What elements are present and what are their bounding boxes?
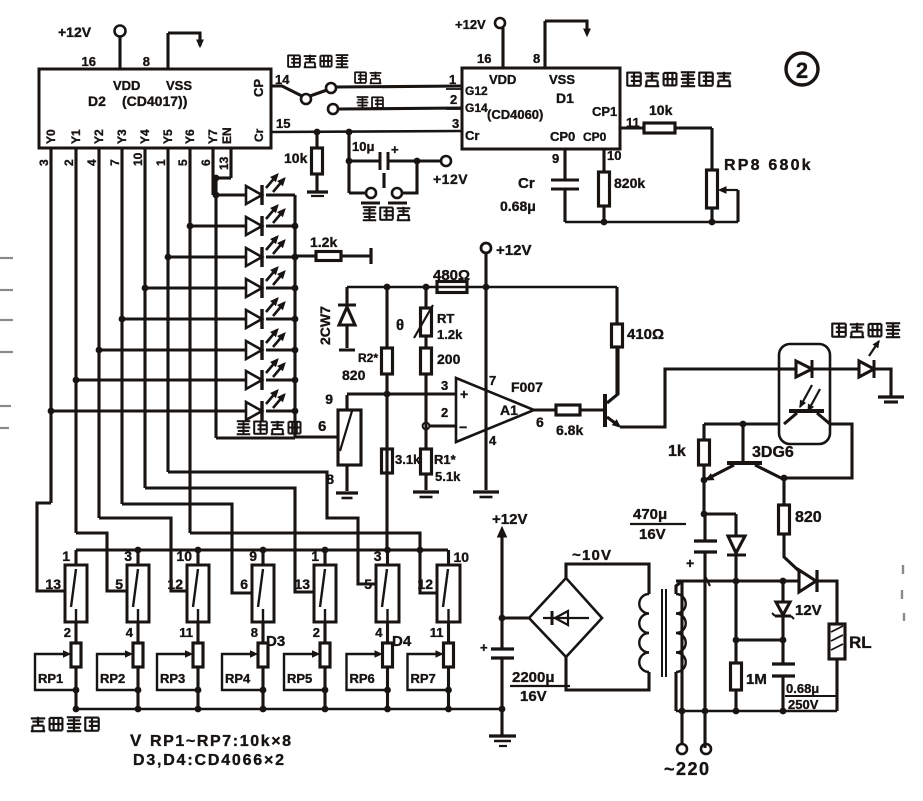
svg-text:D3: D3: [266, 633, 285, 650]
svg-text:EN: EN: [220, 127, 234, 144]
svg-text:RP4: RP4: [225, 671, 251, 686]
svg-text:0.68μ: 0.68μ: [786, 681, 819, 696]
svg-text:10k: 10k: [284, 150, 308, 166]
svg-text:1.2k: 1.2k: [310, 234, 337, 250]
svg-text:3: 3: [441, 378, 448, 393]
svg-text:3.1k: 3.1k: [395, 452, 421, 467]
svg-text:+12V: +12V: [455, 17, 486, 32]
svg-text:2: 2: [450, 92, 457, 107]
svg-text:RP6: RP6: [350, 671, 375, 686]
svg-text:9: 9: [325, 391, 333, 407]
svg-text:15: 15: [276, 116, 290, 131]
svg-text:13: 13: [45, 576, 61, 592]
svg-text:D4: D4: [392, 633, 412, 650]
svg-text:+12V: +12V: [492, 511, 527, 528]
svg-text:12: 12: [417, 576, 433, 592]
svg-text:4: 4: [126, 625, 134, 640]
svg-text:(CD4017)): (CD4017)): [122, 93, 187, 109]
svg-text:10: 10: [454, 549, 470, 565]
svg-text:3: 3: [124, 548, 132, 564]
svg-text:8: 8: [251, 625, 258, 640]
svg-text:5.1k: 5.1k: [435, 469, 461, 484]
svg-text:10: 10: [176, 548, 192, 564]
svg-text:6: 6: [318, 418, 326, 435]
svg-text:1M: 1M: [746, 671, 767, 688]
svg-text:6: 6: [536, 414, 544, 430]
svg-text:+12V: +12V: [433, 171, 468, 187]
svg-text:Y4: Y4: [138, 129, 152, 144]
svg-text:RT: RT: [437, 311, 454, 326]
svg-text:8: 8: [533, 51, 540, 66]
svg-text:4: 4: [85, 159, 99, 166]
svg-text:820: 820: [342, 367, 366, 383]
svg-text:A1: A1: [500, 402, 518, 418]
svg-text:4: 4: [489, 433, 497, 448]
svg-text:6: 6: [240, 576, 248, 592]
svg-text:5: 5: [115, 576, 123, 592]
svg-text:Y3: Y3: [115, 129, 129, 144]
svg-text:+: +: [460, 386, 468, 402]
svg-text:CP1: CP1: [592, 104, 617, 119]
svg-text:2: 2: [796, 58, 808, 83]
svg-text:13: 13: [217, 156, 231, 170]
svg-text:VSS: VSS: [166, 78, 192, 93]
svg-text:1.2k: 1.2k: [437, 327, 463, 342]
svg-text:−: −: [459, 419, 467, 435]
svg-text:2: 2: [313, 625, 320, 640]
svg-text:R1*: R1*: [434, 452, 457, 467]
svg-text:G12: G12: [465, 84, 488, 98]
svg-text:1: 1: [311, 548, 319, 564]
svg-text:VDD: VDD: [113, 78, 140, 93]
svg-text:D1: D1: [556, 90, 574, 106]
svg-text:9: 9: [249, 548, 257, 564]
svg-text:CP: CP: [251, 79, 266, 97]
svg-text:Cr: Cr: [465, 128, 479, 143]
svg-text:2: 2: [64, 625, 71, 640]
svg-text:V: V: [130, 731, 142, 750]
svg-text:480Ω: 480Ω: [433, 267, 470, 284]
svg-text:13: 13: [294, 576, 310, 592]
svg-text:12V: 12V: [795, 602, 822, 619]
svg-text:470μ: 470μ: [633, 506, 667, 523]
svg-text:CP0: CP0: [550, 129, 575, 144]
svg-text:2: 2: [441, 405, 448, 420]
svg-text:~220: ~220: [664, 759, 711, 779]
svg-text:2: 2: [62, 159, 76, 166]
svg-text:RP7: RP7: [411, 671, 436, 686]
svg-text:3: 3: [37, 159, 51, 166]
svg-text:+: +: [391, 142, 399, 157]
svg-text:+: +: [686, 555, 694, 571]
svg-text:CP0: CP0: [583, 130, 607, 144]
svg-text:Cr: Cr: [252, 128, 266, 142]
svg-text:16: 16: [82, 54, 96, 69]
svg-text:12: 12: [167, 576, 183, 592]
svg-text:(CD4060): (CD4060): [487, 107, 543, 122]
svg-text:RP2: RP2: [100, 671, 125, 686]
svg-text:Y5: Y5: [161, 129, 175, 144]
svg-text:7: 7: [108, 159, 122, 166]
svg-text:VSS: VSS: [549, 72, 575, 87]
svg-text:11: 11: [179, 625, 193, 640]
svg-text:3: 3: [374, 548, 382, 564]
svg-text:16V: 16V: [520, 688, 547, 705]
svg-text:D3,D4:CD4066×2: D3,D4:CD4066×2: [133, 752, 286, 769]
svg-text:0.68μ: 0.68μ: [500, 198, 536, 214]
svg-text:10μ: 10μ: [352, 139, 374, 154]
svg-text:3: 3: [452, 116, 459, 131]
svg-text:7: 7: [489, 373, 496, 388]
svg-text:820k: 820k: [614, 175, 645, 191]
svg-text:RP1: RP1: [38, 671, 63, 686]
svg-text:10: 10: [607, 148, 621, 163]
svg-text:F007: F007: [511, 379, 543, 395]
svg-text:11: 11: [430, 625, 444, 640]
svg-text:4: 4: [375, 625, 383, 640]
svg-text:VDD: VDD: [489, 72, 516, 87]
svg-text:RP3: RP3: [160, 671, 185, 686]
svg-text:RP5: RP5: [287, 671, 312, 686]
svg-text:820: 820: [795, 509, 822, 526]
svg-text:6.8k: 6.8k: [556, 422, 583, 438]
svg-text:Y0: Y0: [44, 129, 58, 144]
svg-text:Y2: Y2: [92, 129, 106, 144]
svg-text:410Ω: 410Ω: [627, 326, 664, 343]
svg-text:16: 16: [477, 51, 491, 66]
svg-text:9: 9: [552, 151, 559, 166]
svg-text:RP1~RP7:10k×8: RP1~RP7:10k×8: [150, 733, 293, 750]
svg-text:3DG6: 3DG6: [752, 444, 794, 461]
svg-text:+12V: +12V: [58, 24, 92, 40]
svg-text:8: 8: [326, 471, 334, 487]
svg-text:RP8 680k: RP8 680k: [724, 157, 813, 174]
svg-text:5: 5: [176, 159, 190, 166]
svg-text:Y7: Y7: [206, 129, 220, 144]
svg-text:D2: D2: [88, 93, 106, 109]
svg-text:~10V: ~10V: [572, 547, 612, 564]
svg-text:2200μ: 2200μ: [512, 669, 555, 686]
svg-text:2CW7: 2CW7: [317, 306, 333, 345]
svg-text:RL: RL: [849, 633, 872, 652]
svg-text:6: 6: [199, 159, 213, 166]
svg-text:10: 10: [131, 152, 145, 166]
svg-text:R2*: R2*: [358, 351, 378, 365]
svg-text:1: 1: [154, 159, 168, 166]
svg-text:Cr: Cr: [518, 175, 535, 192]
svg-text:+12V: +12V: [496, 242, 531, 259]
svg-text:1: 1: [62, 548, 70, 564]
svg-text:200: 200: [437, 351, 461, 367]
svg-text:10k: 10k: [649, 102, 673, 118]
svg-text:5: 5: [364, 576, 372, 592]
svg-text:Y1: Y1: [69, 129, 83, 144]
svg-text:Y6: Y6: [183, 129, 197, 144]
svg-text:1k: 1k: [668, 443, 686, 460]
svg-text:+: +: [480, 640, 488, 655]
svg-text:8: 8: [143, 54, 150, 69]
svg-text:θ: θ: [396, 317, 404, 334]
svg-text:1: 1: [449, 72, 456, 87]
svg-text:16V: 16V: [639, 526, 666, 543]
svg-text:G14: G14: [465, 101, 488, 115]
